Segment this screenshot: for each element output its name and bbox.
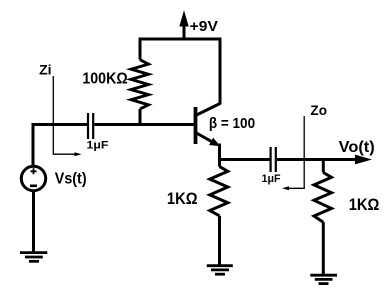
svg-text:+9V: +9V (190, 19, 219, 35)
svg-text:1μF: 1μF (87, 140, 109, 152)
svg-text:Zo: Zo (310, 102, 327, 118)
wire: base node horizontal (left of C1) (33, 123, 87, 126)
wire: C2 to output with Vo(t) arrow (277, 155, 372, 165)
capacitor C2 1μF (271, 147, 276, 172)
svg-text:Vs(t): Vs(t) (55, 171, 87, 188)
ground (load) (310, 275, 337, 283)
resistor R2 1KΩ (emitter) (210, 160, 228, 266)
base bar (194, 107, 198, 144)
svg-text:β = 100: β = 100 (209, 116, 255, 132)
svg-text:1KΩ: 1KΩ (167, 190, 198, 208)
wire: left vertical to source (32, 123, 35, 167)
svg-text:1μF: 1μF (262, 173, 281, 185)
wire: collector to rail (219, 38, 222, 105)
Zi arrow (input impedance) (53, 76, 81, 156)
wire: emitter node to C2 (220, 158, 270, 161)
emitter lead (196, 133, 214, 143)
wire: emitter down to node (218, 144, 221, 162)
+9V supply arrow (179, 10, 188, 39)
svg-text:Zi: Zi (39, 62, 52, 78)
collector lead (196, 104, 221, 116)
wire: C1 to base (94, 123, 194, 126)
transistor Q1 (196, 104, 221, 147)
resistor R1 100KΩ (131, 38, 149, 127)
svg-text:100KΩ: 100KΩ (82, 70, 127, 87)
resistor R3 1KΩ (load) (314, 158, 332, 275)
svg-text:Vo(t): Vo(t) (339, 139, 375, 156)
emitter arrowhead (209, 138, 220, 147)
wire: source to ground (32, 191, 35, 252)
source Vs(t) (21, 166, 45, 190)
ground (emitter) (207, 266, 233, 275)
Zo arrow (output impedance) (282, 116, 304, 190)
ground (source) (20, 253, 47, 262)
power rail wire (top) (140, 38, 220, 41)
capacitor C1 1μF (88, 113, 93, 139)
svg-text:1KΩ: 1KΩ (349, 196, 380, 214)
